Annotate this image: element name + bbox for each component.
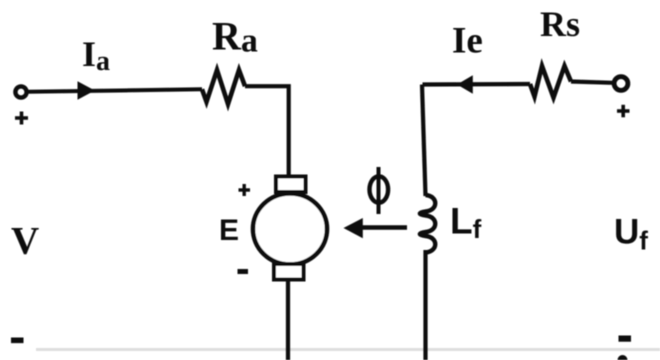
partial terminal dot bottom-right (cut off at edge) — [618, 355, 628, 360]
current arrow Ia — [78, 81, 95, 99]
terminal left (V +) — [15, 86, 26, 97]
resistor Rs — [530, 66, 571, 98]
wire: resistor Rs to right terminal — [571, 82, 613, 83]
terminal right (Uf +) — [614, 77, 628, 91]
motor brush top — [276, 177, 306, 193]
minus at motor bottom — [238, 269, 249, 274]
wire: resistor Ra to corner, then down to motor — [245, 86, 289, 180]
wire: inductor bottom down to edge — [423, 250, 427, 360]
svg-text:Ie: Ie — [452, 21, 483, 62]
plus sign right — [617, 105, 630, 118]
svg-text:E: E — [219, 214, 239, 247]
wire: corner to resistor Rs — [423, 82, 531, 87]
plus at motor top — [239, 184, 251, 196]
svg-text:Rs: Rs — [540, 4, 580, 44]
scan streak near bottom — [36, 348, 660, 351]
motor brush bottom — [274, 264, 304, 280]
wire: right vertical, corner to inductor top — [422, 85, 426, 197]
minus bottom right — [619, 336, 632, 342]
flux arrow — [360, 225, 407, 230]
flux symbol phi — [370, 167, 389, 214]
svg-text:V: V — [11, 220, 39, 263]
resistor Ra — [202, 70, 245, 104]
motor armature circle (E) — [253, 194, 327, 265]
current arrow Ie — [457, 75, 473, 93]
minus bottom left — [11, 338, 24, 344]
inductor Lf — [420, 195, 435, 253]
wire: motor bottom down to edge — [286, 278, 290, 360]
plus sign left — [15, 112, 28, 125]
wire: left terminal to resistor Ra — [27, 89, 202, 92]
